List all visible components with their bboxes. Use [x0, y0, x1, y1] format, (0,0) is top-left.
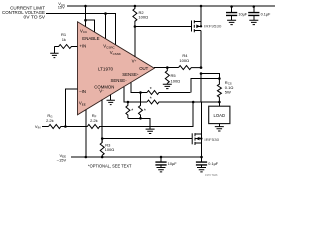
svg-text:15V: 15V	[58, 5, 65, 10]
wire OUT	[154, 67, 179, 69]
svg-text:2.2k: 2.2k	[46, 118, 54, 123]
node junction VEE/cap	[160, 156, 163, 159]
svg-text:0.1µF: 0.1µF	[261, 13, 271, 17]
node junction VEE/R3	[101, 156, 104, 159]
node junction -IN / RG / RF	[64, 125, 67, 128]
svg-text:100Ω: 100Ω	[138, 15, 148, 20]
ground at bottom 0.1uF	[197, 168, 206, 172]
transistor Q2 IRF530	[192, 103, 220, 158]
svg-text:SENSE+: SENSE+	[122, 72, 139, 77]
node junction output/R4	[200, 66, 203, 69]
svg-text:*: *	[150, 97, 152, 103]
node junction OUT/R5	[166, 66, 169, 69]
svg-text:1k: 1k	[62, 37, 66, 42]
svg-text:5W: 5W	[225, 90, 231, 95]
ground at load	[215, 124, 224, 131]
wire output node to RCS top	[201, 74, 219, 79]
ground at bottom 10uF	[157, 168, 166, 172]
svg-text:10µF: 10µF	[168, 162, 177, 166]
capacitor 0.1uF (top)	[248, 7, 271, 21]
wire ENABLE tie to VCC	[86, 20, 95, 32]
svg-text:1970 TA06: 1970 TA06	[205, 173, 218, 177]
wire input line	[42, 126, 49, 128]
capacitor 0.1uF (bottom)	[196, 157, 219, 167]
svg-text:*: *	[150, 87, 152, 93]
svg-text:100Ω: 100Ω	[105, 147, 115, 152]
wire gate line to Q2	[102, 138, 192, 140]
node junction output/RCS tap	[200, 72, 203, 75]
resistor vertical (optional) from SENSE+ line	[139, 93, 146, 119]
resistor RCS	[217, 79, 233, 103]
op-amp U1 LT1970 triangle	[78, 22, 155, 115]
wire SENSE-	[124, 87, 147, 102]
node junction sense ground wire	[139, 117, 142, 120]
wire -IN node to RF	[65, 126, 87, 128]
ground at R5	[163, 84, 172, 88]
resistor R3	[100, 139, 114, 157]
resistor R sense- (optional)	[147, 100, 219, 104]
node junction SENSE- / vertical resistor	[127, 101, 130, 104]
ground at top 0.1uF	[249, 20, 258, 24]
svg-text:10µF: 10µF	[238, 13, 247, 17]
capacitor 10uF (bottom)	[155, 157, 177, 167]
wire RCS to load	[218, 102, 220, 106]
svg-text:LT1970: LT1970	[98, 66, 114, 71]
node junction VEE/pin	[85, 156, 88, 159]
wire SENSE+	[131, 83, 147, 93]
wire VEE pin drop	[85, 110, 87, 157]
svg-text:100Ω: 100Ω	[171, 78, 181, 83]
ground at COMMON pin	[107, 95, 115, 105]
resistor R5	[165, 68, 180, 84]
svg-text:OUT: OUT	[139, 66, 148, 71]
svg-text:–15V: –15V	[57, 158, 67, 163]
ground at top 10uF	[227, 20, 236, 24]
node junction RCS bottom / SENSE- / feedback	[218, 101, 221, 104]
svg-text:–IN: –IN	[79, 89, 86, 94]
resistor R2	[133, 6, 148, 27]
node junction R2/V+/gate	[134, 25, 137, 28]
svg-text:+IN: +IN	[79, 43, 86, 48]
svg-text:VIN: VIN	[35, 124, 41, 130]
wire VCSRC drop	[105, 14, 107, 39]
resistor RG	[46, 113, 65, 129]
wire VEE rail	[71, 156, 202, 158]
svg-text:R4: R4	[182, 53, 188, 58]
node VEE label	[57, 153, 67, 163]
svg-text:2.2k: 2.2k	[90, 118, 98, 123]
svg-text:0V TO 5V: 0V TO 5V	[24, 15, 46, 20]
node junction rail/VCC pin	[84, 5, 87, 8]
op-amp U1 pin labels	[79, 28, 149, 106]
load box	[209, 106, 230, 123]
svg-text:LOAD: LOAD	[214, 113, 226, 118]
node junction rail/Q1 source	[200, 5, 203, 8]
node junction rail/cap	[230, 5, 233, 8]
resistor R4	[179, 53, 202, 70]
node junction V-/gate/R3	[101, 137, 104, 140]
svg-text:IRF9530: IRF9530	[204, 24, 222, 29]
wire feedback line to load node	[99, 102, 193, 127]
wire output vertical continues through sense crossings	[200, 74, 202, 135]
node junction rail/cap	[253, 5, 256, 8]
node junction control/VCSRC	[104, 12, 107, 15]
wire control voltage line	[46, 14, 115, 45]
node junction SENSE+ / vertical resistor	[139, 91, 142, 94]
ground at R1	[50, 47, 58, 58]
node junction VEE / Q2 source / cap	[200, 156, 203, 159]
node junction rail/R2	[134, 5, 137, 8]
svg-text:ENABLE: ENABLE	[82, 36, 99, 41]
svg-text:100Ω: 100Ω	[179, 58, 189, 63]
wire VCC pin drop	[85, 6, 87, 27]
resistor R1	[54, 32, 77, 49]
node annotation: current limit control voltage text	[2, 5, 45, 19]
svg-text:*OPTIONAL, SEE TEXT: *OPTIONAL, SEE TEXT	[88, 164, 132, 169]
wire gate line to Q1	[135, 26, 192, 28]
resistor RF	[87, 113, 99, 129]
resistor vertical (optional) from SENSE- line	[126, 102, 133, 118]
svg-text:*: *	[131, 109, 133, 115]
node VCC label	[58, 1, 65, 10]
svg-text:COMMON: COMMON	[94, 85, 114, 90]
wire sense resistors to ground	[128, 118, 150, 129]
wire VCC rail	[67, 5, 275, 7]
wire -IN pin	[65, 89, 77, 127]
capacitor 10uF (top)	[226, 7, 248, 21]
node junction VCC/ENABLE	[84, 19, 87, 22]
svg-text:*: *	[144, 109, 146, 115]
svg-text:IRF530: IRF530	[204, 137, 220, 142]
resistor R sense+ (optional)	[147, 91, 190, 95]
wire SENSE+ riser to RCS top	[191, 79, 220, 93]
node junction RCS top / SENSE+	[218, 77, 221, 80]
svg-text:R1: R1	[61, 32, 67, 37]
wire V+ pin drop	[134, 27, 136, 58]
svg-text:0.1µF: 0.1µF	[208, 162, 218, 166]
ground at sense divider	[146, 129, 155, 133]
transistor Q1 IRF9530	[192, 6, 223, 68]
wire V- pin drop	[101, 100, 103, 143]
node junction feedback / SENSE- line	[192, 101, 195, 104]
svg-text:SENSE–: SENSE–	[111, 78, 128, 83]
svg-text:R5: R5	[171, 73, 177, 78]
